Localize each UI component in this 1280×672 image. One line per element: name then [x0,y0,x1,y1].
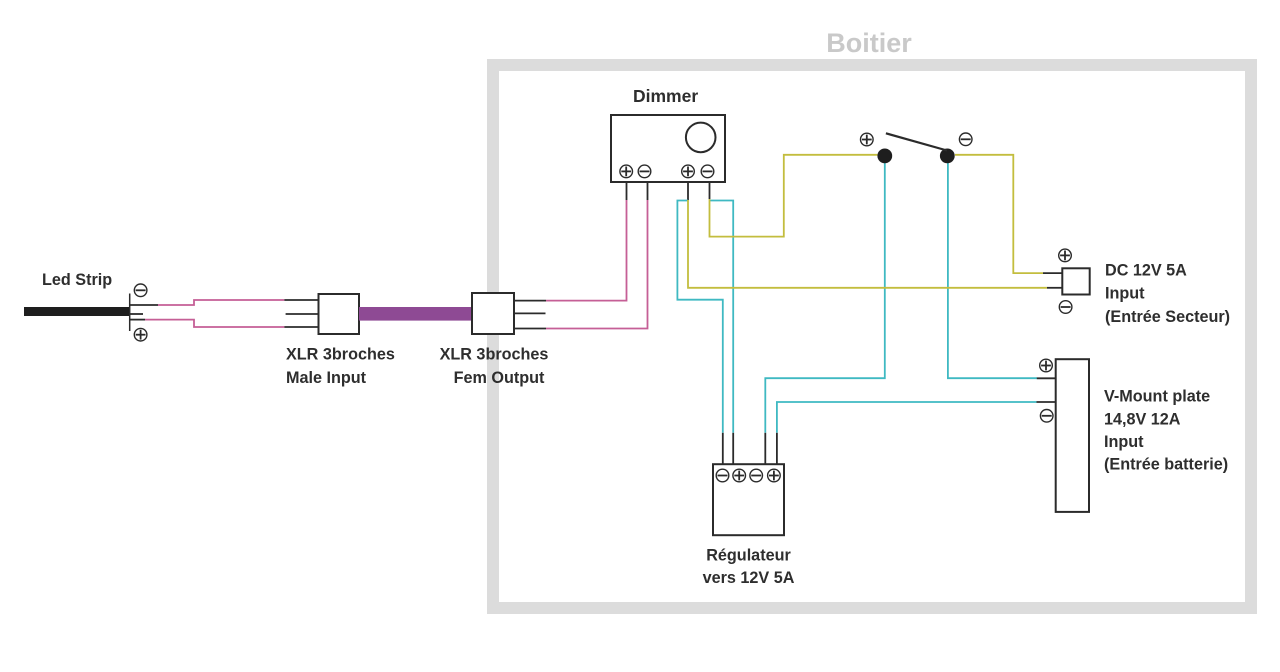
svg-text:vers 12V 5A: vers 12V 5A [703,569,795,587]
svg-text:Male Input: Male Input [286,369,367,387]
svg-text:(Entrée Secteur): (Entrée Secteur) [1105,308,1230,326]
svg-text:14,8V 12A: 14,8V 12A [1104,410,1181,428]
svg-text:Dimmer: Dimmer [633,86,698,106]
svg-text:Input: Input [1104,433,1144,451]
svg-text:(Entrée batterie): (Entrée batterie) [1104,456,1228,474]
svg-text:XLR 3broches: XLR 3broches [286,346,395,364]
svg-text:Led Strip: Led Strip [42,271,112,289]
svg-text:DC 12V 5A: DC 12V 5A [1105,261,1187,279]
svg-text:V-Mount plate: V-Mount plate [1104,388,1210,406]
svg-text:Boitier: Boitier [826,28,912,58]
svg-text:Régulateur: Régulateur [706,546,791,564]
svg-text:XLR 3broches: XLR 3broches [440,346,549,364]
svg-text:Fem Output: Fem Output [454,369,545,387]
svg-text:Input: Input [1105,285,1145,303]
